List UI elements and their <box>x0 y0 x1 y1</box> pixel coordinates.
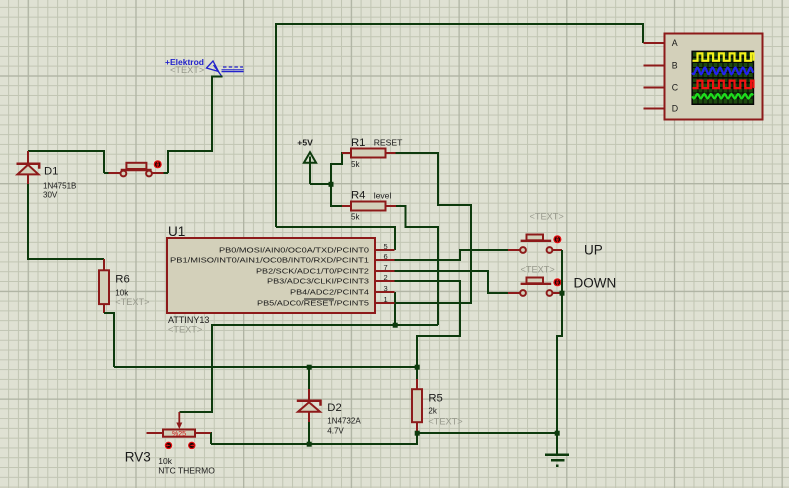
wire: junction down to R4 left <box>331 184 343 206</box>
wire: +5V to junction <box>310 183 331 185</box>
wire: top long horizontal to oscilloscope <box>276 24 643 227</box>
wire: probe drop to button net <box>168 77 222 174</box>
power +5V symbol <box>297 138 316 185</box>
svg-text:R4: R4 <box>351 189 365 201</box>
junction node (ground riser) <box>555 431 560 436</box>
oscilloscope channel letters <box>672 38 679 114</box>
svg-text:<TEXT>: <TEXT> <box>115 297 149 307</box>
pin 2 stub (PB3) <box>375 280 394 282</box>
oscilloscope input stub B <box>644 65 666 67</box>
svg-text:<TEXT>: <TEXT> <box>428 417 462 427</box>
oscilloscope trace C (red square wave) <box>693 81 754 89</box>
svg-text:5k: 5k <box>351 213 360 222</box>
svg-text:DOWN: DOWN <box>574 275 617 290</box>
svg-text:30V: 30V <box>43 190 58 199</box>
svg-text:<TEXT>: <TEXT> <box>530 212 564 222</box>
wire: net level left arm to RV3 wiper <box>179 325 438 412</box>
junction node (DOWN right pin) <box>560 291 565 296</box>
pin 1 stub (PB5) <box>375 302 394 304</box>
wire: pin3 drop to level net <box>394 292 396 325</box>
resistor R4 <box>342 202 396 211</box>
svg-text:PB5/ADC0/RESET/PCINT5: PB5/ADC0/RESET/PCINT5 <box>257 299 369 308</box>
potentiometer RV3 <box>147 412 211 438</box>
zener diode D1 <box>17 151 40 184</box>
push button SW1 (electrode button) <box>104 163 168 177</box>
svg-text:%25: %25 <box>172 431 186 438</box>
resistor R6 <box>99 259 109 313</box>
oscilloscope screen <box>691 51 754 105</box>
actuator (red toggle) of SW1 <box>153 160 162 169</box>
junction node (+5V) <box>329 182 334 187</box>
svg-text:2: 2 <box>384 273 388 282</box>
wire: R6 bottom jog down to thermo net <box>104 313 114 367</box>
wire: R4 right run down (level net) <box>396 206 438 325</box>
ground symbol <box>545 455 569 466</box>
wire: D1 bottom to R6 top <box>28 184 104 259</box>
svg-text:U1: U1 <box>168 224 185 239</box>
wire: buttons right side down to ground <box>557 250 562 454</box>
svg-text:RESET: RESET <box>374 138 403 148</box>
svg-text:1N4751B: 1N4751B <box>43 181 76 190</box>
actuator (red toggle) of RV3 left <box>164 441 172 449</box>
wire: R1 right long run to pin1 (RESET net) <box>394 153 471 303</box>
svg-text:PB4/ADC2/PCINT4: PB4/ADC2/PCINT4 <box>290 288 369 297</box>
svg-text:PB3/ADC3/CLKI/PCINT3: PB3/ADC3/CLKI/PCINT3 <box>267 277 369 286</box>
pin 6 stub (PB1) <box>375 259 394 261</box>
svg-text:1: 1 <box>384 295 388 304</box>
svg-text:5: 5 <box>384 242 388 251</box>
push button DOWN <box>508 278 562 296</box>
wire: R5 bottom down-left to RV3 net <box>211 433 417 444</box>
oscilloscope trace A (yellow square wave) <box>693 53 754 60</box>
oscilloscope input stub A <box>644 42 666 44</box>
svg-text:+5V: +5V <box>297 138 313 148</box>
junction node (pin3/level) <box>393 323 398 328</box>
wire: ground net horizontal <box>417 432 557 434</box>
junction node (thermo net / R5 top) <box>415 365 420 370</box>
voltage probe symbol <box>207 61 244 77</box>
oscilloscope trace D (green sine) <box>692 94 753 98</box>
junction node (R5 bottom) <box>415 431 420 436</box>
svg-text:6: 6 <box>384 252 388 261</box>
actuator (red toggle) of RV3 right <box>188 441 196 449</box>
wire: D1 top to button left <box>28 151 104 173</box>
svg-text:D2: D2 <box>327 402 341 414</box>
svg-text:4.7V: 4.7V <box>327 427 344 436</box>
svg-text:D: D <box>672 104 678 114</box>
svg-text:5k: 5k <box>351 160 360 169</box>
svg-text:ATTINY13: ATTINY13 <box>168 315 209 325</box>
push button UP <box>508 235 562 253</box>
svg-text:<TEXT>: <TEXT> <box>168 325 202 335</box>
svg-text:level: level <box>374 190 392 200</box>
svg-text:PB0/MOSI/AIN0/OC0A/TXD/PCINT0: PB0/MOSI/AIN0/OC0A/TXD/PCINT0 <box>219 246 369 255</box>
svg-text:3: 3 <box>384 284 388 293</box>
microcontroller U1 ATTINY13 <box>167 238 375 313</box>
svg-text:PB1/MISO/INT0/AIN1/OC0B/INT0/R: PB1/MISO/INT0/AIN1/OC0B/INT0/RXD/PCINT1 <box>170 256 369 265</box>
svg-text:C: C <box>672 83 679 93</box>
svg-text:A: A <box>672 38 678 48</box>
wire: junction up to R1 left <box>331 153 343 184</box>
zener diode D2 <box>297 367 321 444</box>
U1 pin numbers <box>384 242 388 304</box>
oscilloscope input stub D <box>644 108 666 110</box>
resistor R5 <box>412 367 422 433</box>
svg-text:D1: D1 <box>44 166 58 178</box>
actuator (red toggle) of DOWN <box>553 278 562 287</box>
svg-text:10k: 10k <box>158 456 172 466</box>
oscilloscope body <box>665 34 763 120</box>
svg-text:PB2/SCK/ADC1/T0/PCINT2: PB2/SCK/ADC1/T0/PCINT2 <box>256 267 369 276</box>
svg-text:R1: R1 <box>351 137 365 149</box>
svg-text:RV3: RV3 <box>125 449 151 464</box>
svg-text:NTC THERMO: NTC THERMO <box>158 466 215 476</box>
svg-text:<TEXT>: <TEXT> <box>521 265 555 275</box>
overline on RESET in PB5 pin label <box>304 298 334 300</box>
svg-text:UP: UP <box>584 242 603 257</box>
wire: pin7 to DOWN button <box>394 271 508 293</box>
oscilloscope trace B (blue sine) <box>692 68 753 75</box>
wire: RV3 right pin to bottom net <box>210 433 212 444</box>
svg-text:1N4732A: 1N4732A <box>327 417 361 426</box>
actuator (red toggle) of UP <box>553 235 562 244</box>
pin 5 stub (PB0) <box>375 249 394 251</box>
resistor R1 <box>342 149 395 158</box>
wire: pin2 run to thermo net junction <box>394 281 460 367</box>
junction node (D2 bottom) <box>307 442 312 447</box>
wire: thermo net horizontal <box>114 366 417 368</box>
svg-text:2k: 2k <box>428 406 437 415</box>
svg-text:<TEXT>: <TEXT> <box>170 65 204 75</box>
svg-text:R6: R6 <box>115 274 129 286</box>
U1 pin stubs <box>375 250 394 303</box>
svg-text:B: B <box>672 61 678 71</box>
svg-text:R5: R5 <box>428 393 442 405</box>
wire: pin5 top run <box>276 227 395 250</box>
junction node (D2 top) <box>307 365 312 370</box>
wire: pin6 to UP button <box>394 250 508 260</box>
U1 pin name labels <box>170 246 369 308</box>
pin 3 stub (PB4) <box>375 291 394 293</box>
pin 7 stub (PB2) <box>375 270 394 272</box>
oscilloscope input stub C <box>644 87 666 89</box>
svg-text:7: 7 <box>384 263 388 272</box>
